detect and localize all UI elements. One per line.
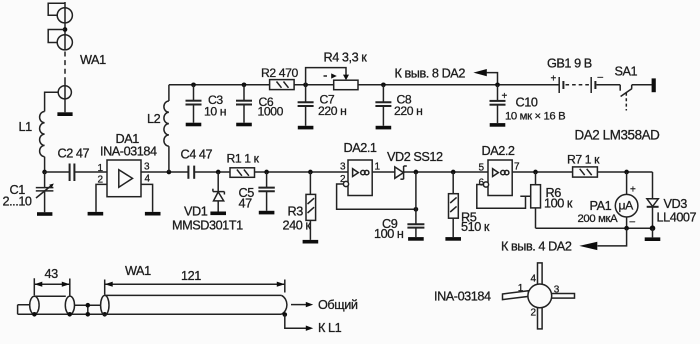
svg-text:LL4007: LL4007	[657, 211, 697, 225]
op-amp U DA2.1 box	[348, 160, 372, 196]
cable section2 top line	[105, 294, 282, 296]
pin 2 DA2.1 inverting circle	[343, 181, 348, 186]
resistor R4 adjust dashed arrow	[324, 73, 337, 78]
capacitor C7	[298, 85, 314, 126]
node R3 junction	[308, 170, 313, 175]
resistor R1	[230, 168, 255, 178]
ground VD3	[645, 237, 661, 241]
svg-text:4: 4	[531, 274, 537, 285]
svg-text:100 н: 100 н	[374, 227, 404, 241]
resistor R3	[306, 172, 316, 240]
svg-text:+: +	[502, 91, 508, 102]
wire L2 bottom lead	[168, 146, 170, 172]
op-amp DA2.1 infinity	[361, 170, 369, 174]
wire R2 to R4	[294, 84, 334, 86]
wire VD2 to DA2.2	[404, 171, 488, 173]
switch SA1	[620, 85, 632, 111]
ground R5	[445, 237, 461, 241]
wire VD3 branch down	[652, 172, 654, 199]
diode VD3	[647, 199, 659, 228]
package body circle	[528, 284, 552, 308]
wire DA2.2 feedback	[477, 185, 531, 209]
node braid dot 2	[67, 312, 72, 317]
wire bottom return	[536, 227, 653, 229]
svg-text:3: 3	[554, 284, 560, 295]
svg-text:1: 1	[518, 283, 524, 294]
cable section1 left ellipse	[30, 296, 39, 314]
node VD3 bottom junction	[650, 225, 656, 231]
svg-text:2: 2	[531, 308, 537, 319]
arrow K L1	[306, 326, 313, 331]
wire DA2.1 output to VD2	[372, 171, 395, 173]
resistor R1 hatch	[237, 170, 249, 176]
package lead pin3 right	[551, 294, 575, 299]
node shield output dot	[283, 312, 288, 317]
cable braid bottom line	[18, 313, 282, 315]
svg-text:121: 121	[181, 269, 201, 283]
resistor R7	[573, 167, 598, 177]
wire DA2.2 output	[512, 171, 572, 173]
node R5 junction	[451, 170, 456, 175]
ground VD1	[210, 212, 226, 216]
node L1/C1/C2 junction	[42, 170, 47, 175]
dimension 43 arrowheads	[34, 282, 70, 287]
ground C3	[186, 123, 202, 127]
node C6 on rail	[242, 82, 247, 87]
svg-text:R3: R3	[288, 205, 304, 219]
resistor R7 hatch	[580, 169, 592, 175]
ground antenna	[57, 112, 72, 116]
dimension 121 arrowheads	[105, 282, 285, 287]
pin 6 DA2.2 inverting circle	[483, 182, 488, 187]
wire R4 to C8 to C10	[358, 84, 559, 86]
package lead pin4 top	[538, 263, 543, 285]
cable stub center conductor	[18, 305, 30, 314]
capacitor C2	[70, 164, 75, 182]
svg-text:4: 4	[145, 174, 151, 185]
wire antenna tap to L1	[45, 92, 59, 111]
svg-text:DA2.1: DA2.1	[344, 141, 377, 155]
svg-text:220 н: 220 н	[318, 104, 346, 118]
antenna WA1 rod	[64, 2, 66, 50]
svg-text:220 н: 220 н	[394, 104, 422, 118]
capacitor C1 variable	[36, 184, 54, 213]
svg-text:GB1 9 В: GB1 9 В	[547, 57, 592, 71]
node VD1 junction	[216, 170, 221, 175]
capacitor C9	[407, 224, 424, 237]
node R6 output junction	[533, 170, 538, 175]
node center dot	[86, 303, 91, 308]
svg-text:100 к: 100 к	[544, 197, 573, 211]
package lead pin2 bottom	[538, 307, 543, 329]
wire L2 top lead to rail	[168, 85, 170, 101]
capacitor C10	[490, 85, 508, 123]
ground C1	[37, 212, 52, 216]
svg-text:VD1: VD1	[184, 205, 208, 219]
ground DA1 pin4	[145, 212, 161, 216]
svg-text:R7 1 к: R7 1 к	[567, 152, 600, 166]
op-amp DA2.1 triangle	[353, 169, 359, 177]
svg-text:DA2.2: DA2.2	[482, 144, 515, 158]
cable section1 right ellipse	[65, 296, 74, 314]
svg-text:PA1: PA1	[590, 199, 612, 213]
arrow to pin 4 DA2	[579, 242, 597, 250]
wire main node to C2	[45, 171, 70, 173]
capacitor C3	[186, 85, 202, 123]
svg-text:VD3: VD3	[664, 197, 688, 211]
inductor L1	[40, 112, 45, 157]
resistor R6	[531, 172, 541, 228]
svg-text:DA2 LM358AD: DA2 LM358AD	[575, 128, 661, 143]
wire DA2.1 feedback	[337, 184, 416, 209]
svg-text:R4 3,3 к: R4 3,3 к	[324, 51, 368, 65]
svg-text:3: 3	[144, 161, 150, 172]
node PA1 top junction	[624, 170, 629, 175]
resistor R4 trimmer wiper wire	[306, 68, 346, 85]
ground C5	[259, 211, 275, 215]
ground DA1 pin2	[88, 212, 104, 216]
cable section2 left ellipse	[101, 295, 109, 315]
node PA1 bottom junction	[624, 226, 629, 231]
wire VD3 to ground	[652, 228, 654, 237]
svg-text:К выв. 8 DA2: К выв. 8 DA2	[395, 67, 466, 81]
cable section2 right end arc	[282, 295, 287, 314]
cable center conductor between sections	[75, 304, 101, 306]
wire to pin 8 DA2 arrow	[487, 73, 498, 85]
diode VD2 schottky	[395, 166, 407, 179]
op-amp U DA1 box	[107, 160, 141, 197]
svg-text:2...10: 2...10	[3, 195, 32, 209]
wire DA1 pin3 to L2 node	[141, 171, 188, 173]
svg-text:1: 1	[98, 163, 104, 174]
capacitor C8	[375, 85, 391, 126]
svg-text:–: –	[598, 72, 604, 83]
battery GB1 cell2	[591, 72, 603, 93]
wire node to C1	[44, 172, 46, 188]
svg-text:SA1: SA1	[615, 64, 638, 78]
node braid dot 3	[86, 312, 91, 317]
svg-text:L2: L2	[147, 112, 161, 126]
wire antenna rod through bottom circle	[64, 80, 66, 112]
svg-text:INA-03184: INA-03184	[434, 289, 491, 303]
wire to pin 4 DA2 arrow	[598, 228, 627, 246]
node VD2 cathode junction	[414, 170, 419, 175]
wire R7 to VD3 corner	[597, 171, 652, 173]
node C8 on rail	[381, 82, 386, 87]
wire C4 to R1	[194, 171, 230, 173]
svg-text:200 мкА: 200 мкА	[578, 213, 619, 225]
node braid dot 4	[102, 312, 107, 317]
svg-text:240 к: 240 к	[283, 219, 312, 233]
node C10 on rail	[495, 82, 500, 87]
antenna WA1 section circle bottom	[58, 86, 71, 99]
wire battery to switch	[597, 84, 621, 86]
resistor R2 hatch	[277, 82, 289, 88]
antenna WA1 clamp square top	[48, 3, 65, 15]
svg-text:L1: L1	[19, 120, 33, 134]
ground R3	[303, 240, 319, 244]
antenna WA1 section circle second	[57, 35, 72, 50]
package lead pin1 left	[503, 291, 529, 300]
svg-text:5: 5	[479, 163, 485, 174]
cable section1 top line	[34, 295, 65, 297]
dimension 43 extension lines	[34, 278, 70, 296]
svg-text:WA1: WA1	[80, 53, 106, 67]
ground C6	[236, 123, 252, 127]
resistor R2	[270, 80, 295, 90]
svg-text:47: 47	[239, 196, 253, 210]
svg-text:R2 470: R2 470	[261, 66, 299, 80]
wire switch to terminal	[632, 84, 652, 86]
svg-text:7: 7	[514, 161, 520, 172]
ground C7	[298, 126, 314, 130]
antenna WA1 clamp square second	[48, 30, 65, 43]
svg-text:INA-03184: INA-03184	[100, 145, 157, 159]
svg-text:10 н: 10 н	[204, 105, 226, 119]
svg-text:К выв. 4 DA2: К выв. 4 DA2	[501, 240, 572, 254]
node braid dot 1	[32, 312, 37, 317]
antenna WA1 section circle top	[57, 8, 72, 23]
op-amp DA2.2 triangle	[493, 169, 499, 177]
wire center to braid link	[87, 305, 89, 314]
ground C10	[490, 123, 506, 127]
svg-text:WA1: WA1	[125, 264, 151, 278]
svg-text:R1 1 к: R1 1 к	[227, 152, 260, 166]
svg-text:К L1: К L1	[318, 321, 342, 335]
svg-text:C2 47: C2 47	[58, 147, 90, 161]
meter PA1	[615, 172, 638, 228]
capacitor C6	[236, 85, 252, 123]
antenna WA1 telescopic dashed rod	[64, 52, 66, 81]
svg-text:C4 47: C4 47	[181, 148, 213, 162]
inductor L2	[164, 101, 169, 146]
dimension 121 extension lines	[105, 280, 285, 295]
wire DA1 pin4 to ground	[141, 184, 153, 212]
svg-text:3: 3	[340, 162, 346, 173]
node C5 junction	[264, 170, 269, 175]
svg-text:+: +	[630, 185, 636, 196]
arrow Obshchiy	[306, 302, 313, 307]
ground C8	[376, 126, 392, 130]
dimension 43 line	[34, 283, 70, 285]
svg-text:μA: μA	[619, 199, 635, 213]
svg-text:43: 43	[45, 267, 59, 281]
node C3 on rail	[191, 82, 196, 87]
wire to Obshchiy arrow	[291, 304, 307, 306]
svg-text:+: +	[551, 74, 557, 85]
ground C9	[408, 237, 424, 241]
node feedback/C9 junction	[414, 207, 419, 212]
resistor R5	[449, 172, 459, 237]
wire to K L1 arrow	[285, 315, 307, 329]
svg-text:VD2 SS12: VD2 SS12	[387, 150, 443, 164]
svg-text:1000: 1000	[258, 105, 284, 119]
svg-text:510 к: 510 к	[461, 220, 490, 234]
op-amp DA2.2 infinity	[501, 170, 509, 174]
svg-text:10 мк × 16 В: 10 мк × 16 В	[505, 111, 565, 123]
terminal bar	[652, 78, 656, 92]
op-amp DA1 triangle	[119, 170, 133, 188]
diode VD1 schottky	[213, 172, 225, 212]
svg-text:1: 1	[375, 161, 381, 172]
capacitor C5	[258, 172, 274, 211]
wire C2 to DA1 pin1	[74, 171, 107, 173]
svg-text:–: –	[630, 217, 636, 228]
node L2 bottom junction	[167, 170, 172, 175]
node C7/R4 junction	[303, 82, 308, 87]
svg-text:MMSD301T1: MMSD301T1	[172, 219, 243, 233]
capacitor C4	[188, 166, 194, 179]
dimension 121 line	[105, 283, 285, 285]
wire R1 to DA2.1	[255, 171, 349, 173]
battery GB1 dashed link	[566, 84, 590, 86]
wire L1 bottom to main node	[44, 157, 46, 172]
arrow to pin 8 DA2	[473, 69, 486, 76]
svg-text:Общий: Общий	[318, 298, 358, 312]
wire DA1 pin2 to ground	[96, 184, 107, 212]
resistor R4 wiper arrowhead	[343, 75, 349, 81]
battery GB1 cell1	[551, 74, 564, 94]
svg-text:C10: C10	[516, 95, 538, 109]
wire detector node down	[415, 172, 417, 224]
node antenna junction	[63, 27, 68, 32]
resistor R4 box	[334, 80, 358, 90]
wire top rail left segment	[169, 84, 270, 86]
op-amp U DA2.2 box	[488, 160, 512, 196]
